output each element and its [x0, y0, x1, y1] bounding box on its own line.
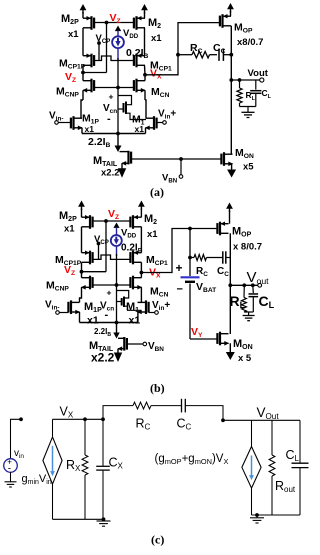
capacitor CX branch [102, 419, 104, 466]
svg-text:-: - [107, 113, 111, 125]
transistor M2 (PMOS, x1) [135, 16, 137, 30]
tail rail wire [82, 133, 146, 135]
svg-text:x1: x1 [147, 229, 158, 240]
node VX at MCP1 drain (red label) [144, 65, 147, 75]
resistor RC (c) [133, 402, 151, 409]
svg-text:x5: x5 [243, 162, 254, 173]
resistor Rout branch (c) [271, 420, 273, 455]
svg-text:x 8/0.7: x 8/0.7 [233, 242, 262, 253]
output transistor MON (NMOS x5) [223, 152, 225, 166]
capacitor CC [218, 49, 220, 61]
svg-text:(c): (c) [151, 533, 164, 547]
load capacitor CL (b) [252, 285, 255, 293]
input transistor M1P (b) [70, 300, 72, 314]
input transistor M1 (NMOS) [153, 116, 155, 130]
svg-text:x1: x1 [64, 224, 75, 235]
compensation RC CC branch (b) [188, 256, 192, 260]
VDD arrow above M2 [141, 4, 148, 10]
output transistor MOP (b) [219, 222, 221, 236]
left bottom wire and ground (c) [53, 518, 106, 520]
wire VX to MOP gate (first to second stage) [145, 23, 220, 75]
VOut top wire (c) [223, 419, 300, 421]
wire MCN drain to VX node [144, 75, 146, 81]
transistor MCP1P (b) [89, 251, 91, 265]
load resistor RL [239, 80, 241, 88]
svg-text:−: − [177, 284, 183, 296]
svg-text:+: + [176, 261, 183, 275]
resistor RC (b) [194, 255, 207, 261]
transistor MCN (NMOS cascode) [135, 79, 137, 93]
output transistor MON (b) [219, 332, 221, 346]
svg-text:+: + [109, 92, 114, 102]
load ground [240, 106, 256, 108]
svg-text:x1: x1 [87, 315, 99, 327]
svg-text:+: + [107, 288, 112, 298]
VDD arrow above MOP [227, 3, 234, 9]
node VX of (b) [140, 262, 142, 272]
node VZ wire of (b) [93, 220, 131, 222]
svg-text:x 5: x 5 [238, 353, 252, 364]
svg-text:x8/0.7: x8/0.7 [237, 37, 263, 48]
ground below vin [10, 472, 12, 481]
MON source arrow (b) [229, 343, 231, 353]
bias node VCP with stub [97, 41, 101, 45]
svg-text:(b): (b) [150, 381, 165, 395]
transistor MTAIL (b) [118, 337, 124, 339]
battery VBAT [181, 276, 200, 278]
wire MCNP drain to VZ node [82, 73, 84, 81]
output vertical wire (b) [229, 233, 231, 334]
load ground (b) [244, 311, 253, 313]
VZ vertical drop (b) [105, 221, 107, 272]
Vcn diode transistor with bracket (b) [116, 285, 118, 323]
wire VX up to RC (c) [103, 406, 133, 420]
svg-text:x1: x1 [68, 29, 79, 40]
svg-text:x1: x1 [85, 124, 95, 134]
transistor M2P of (b) [89, 215, 91, 229]
transistor MCP1 (b) [132, 251, 134, 265]
current source 0.2IB (b) [113, 223, 119, 228]
svg-text:x1: x1 [135, 124, 145, 134]
wire M1P source to tail rail [81, 128, 83, 134]
wire VZ vertical drop to lower VZ node [106, 23, 108, 73]
bottom wire and ground (c) [252, 514, 301, 516]
load resistor RL (b) [243, 285, 245, 297]
gate bias rail VBN to MON [131, 158, 221, 160]
transistor MCN (b) [132, 276, 134, 290]
svg-text:x2.2: x2.2 [101, 168, 120, 179]
VX top wire (c) [53, 418, 104, 420]
current source 0.2IB from VDD [115, 26, 121, 32]
wire VX to MOP gate frame (b) [141, 229, 216, 273]
dependent source gmin*vin (diamond) [43, 437, 62, 484]
tail current arrow into MTAIL [117, 134, 119, 147]
output Vout wire and terminal [231, 79, 259, 81]
wire MCNP source down to M1P drain [82, 90, 84, 100]
resistor RC [192, 52, 210, 58]
VBN terminal (b) [127, 343, 143, 345]
input transistor M1P (NMOS) [72, 116, 74, 130]
VDD arrow above MOP (b) [226, 203, 233, 209]
output transistor MOP (PMOS x8/0.7) [221, 14, 223, 28]
VDD arrow above M2 (b) [138, 201, 145, 207]
transistor MCP1P (PMOS cascode) [90, 54, 92, 68]
capacitor CC (c) [181, 399, 183, 413]
svg-text:x2.2: x2.2 [91, 351, 115, 365]
node VZ lower (b) [81, 262, 83, 271]
input transistor M1 (b) [145, 300, 147, 314]
battery branch VBAT (b) [189, 229, 191, 277]
MON source current arrow [231, 164, 233, 171]
VDD arrow above M2P [80, 4, 87, 10]
wire M1 source to tail rail [145, 128, 147, 134]
transistor M2 of (b) [132, 215, 134, 229]
bias node VCP (b) [97, 242, 101, 246]
node VZ lower (red label) at MCP1P drain [82, 65, 84, 72]
transistor MTAIL (x2.2) [120, 151, 129, 153]
compensation branch RC + CC [178, 54, 192, 56]
output node vertical wire [230, 26, 232, 155]
input source vin (independent) [11, 419, 22, 459]
svg-text:-: - [105, 309, 109, 321]
wire M2 drain to MCP1 source [144, 28, 146, 56]
wire M2P drain to MCP1P source (b) [81, 227, 83, 253]
wires cascode sources to input pair drains (b) [80, 287, 82, 302]
transistor MCNP (NMOS cascode) [90, 79, 92, 93]
VDD arrow above M2P (b) [78, 201, 85, 207]
output Vout wire (b) [230, 284, 257, 286]
capacitor CC (b) [222, 251, 224, 263]
VCP gate rail with hop (b) [93, 255, 131, 259]
svg-text:(a): (a) [150, 185, 164, 199]
dependent source (gmOP+gmON)VX (diamond) [251, 420, 253, 446]
wire M2 drain to MCP1 source (b) [140, 227, 142, 253]
resistor RX branch [84, 419, 86, 455]
transistor MCNP (b) [89, 276, 91, 290]
transistor MCP1 (PMOS cascode) [135, 54, 137, 68]
wire CC to VOut node (c) [185, 406, 223, 421]
tail arrow (b) [116, 323, 118, 334]
svg-text:Vout: Vout [248, 68, 269, 79]
wire M2P drain to MCP1P source [82, 28, 84, 56]
capacitor CL branch (c) [299, 420, 301, 463]
node VZ wire (gates of M2P and M2) [94, 22, 134, 24]
load capacitor CL [255, 80, 257, 90]
Vcn level-shift diode transistor with bracket [117, 88, 119, 134]
VCN gate rail (b) [93, 284, 131, 286]
transistor M2P (PMOS, x1) [90, 16, 92, 30]
MON gate wire from battery VY (b) [190, 338, 217, 340]
VCN gate rail [94, 87, 134, 89]
tail rail (b) [79, 312, 81, 323]
wire MCN source down to M1 drain [144, 90, 146, 100]
svg-text:x1: x1 [151, 33, 162, 44]
VCP gate rail with hop over VZ line [94, 56, 134, 61]
